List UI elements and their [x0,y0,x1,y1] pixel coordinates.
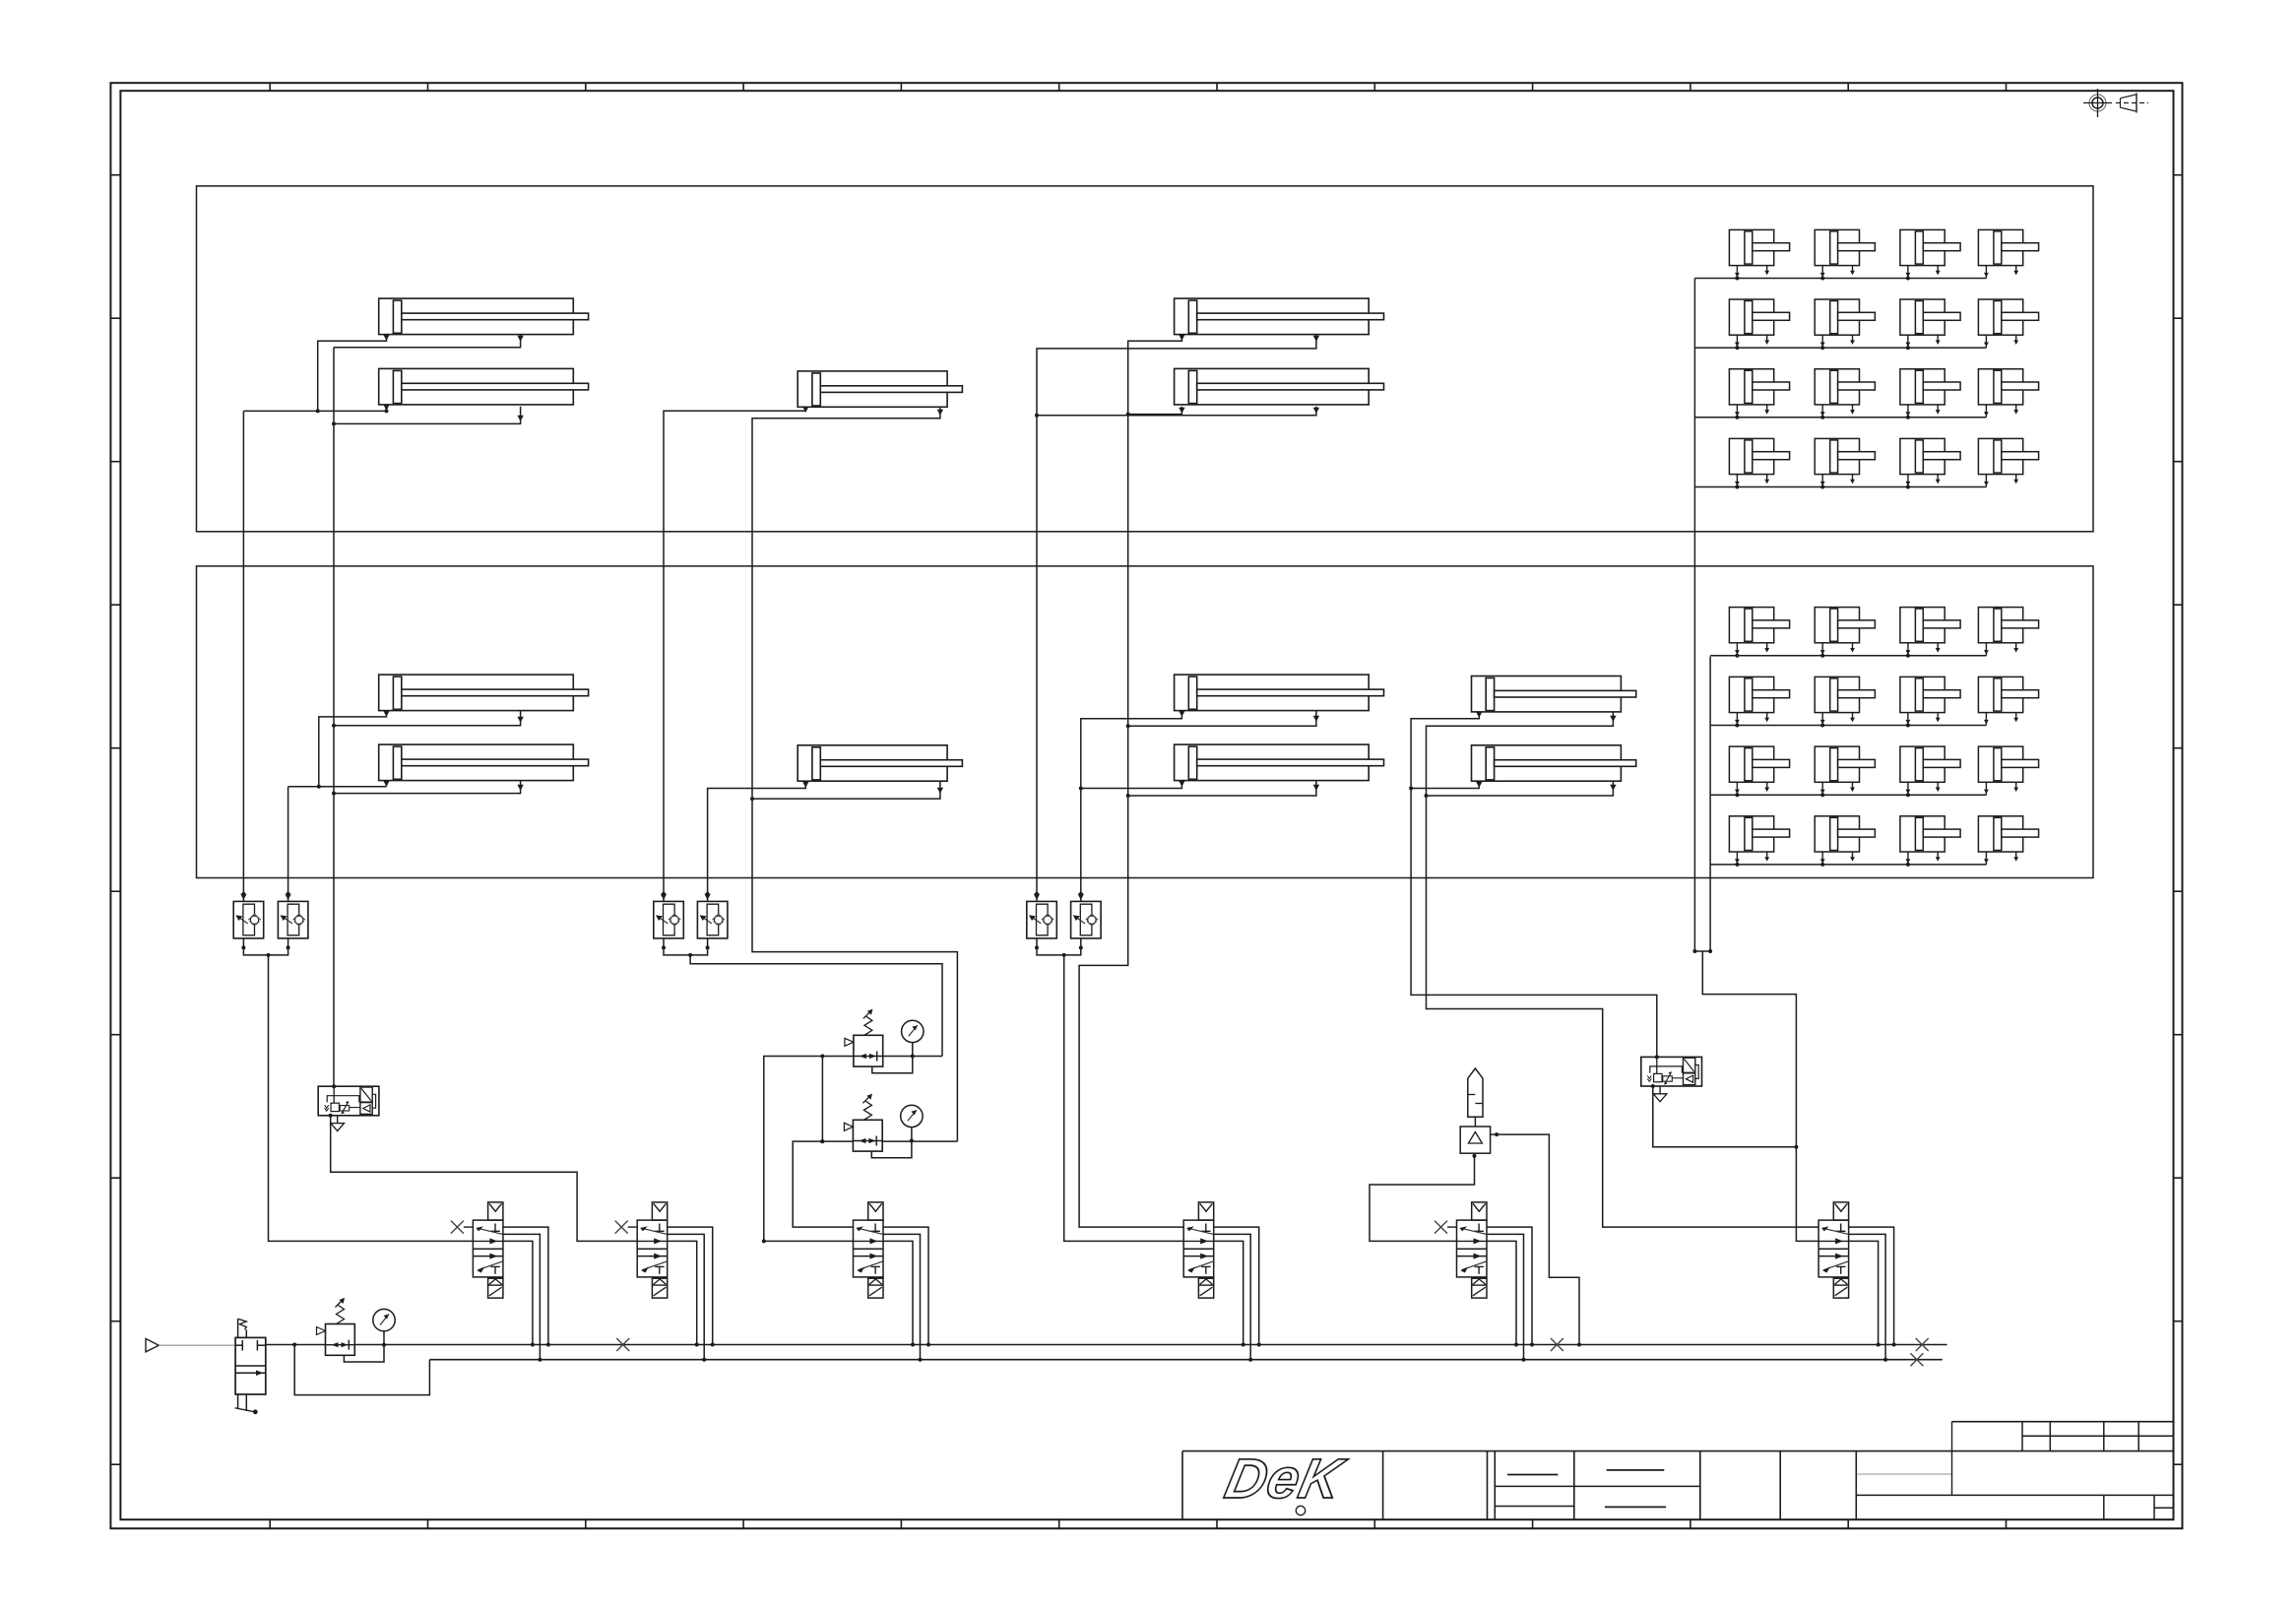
cylinder C2 upper-right pair bottom [1175,368,1384,405]
grid-lower r1c3 port stubs [1907,643,1909,656]
cone view symbol [2116,102,2148,104]
bus bypass to bus 2 [294,1345,429,1395]
title block bottom-right cells [2103,1495,2105,1519]
grid-lower r1c2 port stubs [1821,643,1823,656]
grid-lower row 4 cylinders [1729,816,1789,852]
grid-lower r1c1 port stubs [1736,643,1738,656]
S1 input stub [332,1084,336,1088]
grid-lower r3c2 port stubs [1821,782,1823,795]
grid-lower r2c1 port stubs [1736,713,1738,726]
wire A1 port2 to B-manifold trunk [334,335,521,348]
cylinder D2 group4 bottom [1472,745,1636,781]
shut-off valve spring return [237,1319,239,1337]
valve V4 5/2 solenoid [1183,1202,1214,1298]
wire D1 port2 to valve V6 trunk [1427,712,1819,1227]
grid-upper row 3 bus wire [1694,417,1986,419]
pressure regulator R2 relief line [871,1141,912,1158]
wire B2 port1 to CV2b [708,781,806,901]
valve V5 5/2 solenoid output wires to manifold [1487,1227,1532,1344]
S1 output to valve V2 [331,1116,638,1242]
border zone tick marks top/bottom [269,83,271,91]
wire A4 port1 header to CV1b [288,786,387,788]
wire C2 port1 [1128,407,1182,415]
main supply bus line 1 [384,1344,1947,1346]
grid-lower r4c4 port stubs [1985,852,1987,865]
grid-upper r3c4 port stubs [1985,405,1987,418]
wire B2 port2 trunk [752,781,940,799]
compressed air source [146,1339,159,1352]
valve V6 5/2 solenoid output wires to manifold [1849,1227,1894,1344]
trunk to check valve CV1a [242,411,244,901]
regulator R2 input from CV3 node [883,1140,958,1142]
valve V1 5/2 solenoid output wires to manifold [503,1227,548,1344]
grid-upper row 2 bus wire [1694,347,1986,349]
pressure regulator R2 gauge [901,1105,923,1127]
grid-lower r3c3 port stubs [1907,782,1909,795]
cylinder C1 upper-right pair top [1175,298,1384,335]
valve V2 5/2 solenoid blocked port X [615,1221,628,1234]
cylinder C4 lower-right pair bottom [1175,744,1384,781]
cylinder B2 lower-middle [797,745,962,781]
grid-upper r4c3 port stubs [1907,475,1909,487]
wire C2 port2 [1037,407,1316,416]
valve V3 5/2 solenoid [854,1202,884,1298]
grid-lower r2c3 port stubs [1907,713,1909,726]
grid collector junction [1694,950,1710,952]
link between regulator outlet lines [821,1057,823,1142]
cylinder D1 group4 top [1472,677,1636,712]
hand shut-off valve 3/2 [235,1337,266,1394]
grid-upper r4c1 port stubs [1736,475,1738,487]
valve V5 5/2 solenoid blocked port X [1435,1221,1447,1234]
grid-upper r3c1 port stubs [1736,405,1738,418]
grid-upper r2c1 port stubs [1736,335,1738,348]
wire A2 port2 [334,407,521,424]
grid-lower row 1 bus wire [1710,655,1986,657]
main regulator R0 body relief line [344,1345,384,1362]
R0 main line in/out [266,1344,326,1346]
soft-start unit S1 [318,1086,379,1116]
regulator R2 output to valve V3 [793,1141,853,1227]
grid-upper r3c2 port stubs [1821,405,1823,418]
grid-upper r1c1 port stubs [1736,266,1738,279]
wire A4 port2 [334,781,521,794]
wire A2 port1 stub [386,407,388,412]
DEK logo trademark circle [1296,1506,1305,1514]
F1 output to valve V5 [1370,1153,1475,1241]
filter-dryer unit F1 [1468,1068,1483,1117]
grid-upper row 4 cylinders [1729,438,1789,474]
machine boundary box lower [197,566,2094,878]
wire C1 port1 to trunk T3 [1079,335,1183,1228]
check valve CV2b [697,901,728,938]
B-manifold trunk left group [333,348,335,1086]
shut-off valve port T marks [235,1344,242,1346]
grid-upper r1c3 port stubs [1907,266,1909,279]
grid-upper r1c4 port stubs [1985,266,1987,279]
svg-text:DeK: DeK [1220,1449,1352,1511]
grid-upper row 1 bus wire [1694,278,1986,280]
source line [159,1344,235,1346]
wire C3 port1 to CV3b [1081,711,1182,902]
grid-upper r3c3 port stubs [1907,405,1909,418]
grid-lower row 2 bus wire [1710,725,1986,727]
inner border frame [120,91,2173,1519]
CV3 pair bottom join to valve V4 pilot line [1037,938,1081,955]
CV2 pair bottom join to regulator R1 input [664,938,708,955]
grid-lower r4c2 port stubs [1821,852,1823,865]
valve V6 5/2 solenoid [1818,1202,1849,1298]
pressure regulator R1 gauge [902,1020,924,1042]
title block strip [1182,1450,2174,1452]
bus blank plugs X marks [616,1338,629,1351]
grid-lower r1c4 port stubs [1985,643,1987,656]
grid-upper row 3 cylinders [1729,369,1789,405]
F1 supply riser from main bus [1491,1134,1579,1344]
main regulator R0 body [317,1298,355,1355]
shut-off valve exhaust [237,1394,239,1409]
grid-lower row 1 cylinders [1729,608,1789,643]
grid feed line to valve V6 [1702,951,1818,1241]
check valve CV1a [233,901,264,938]
grid-lower row 3 cylinders [1729,746,1789,782]
check valve CV2a [654,901,684,938]
grid-lower r4c3 port stubs [1907,852,1909,865]
wire C4 port1 [1081,781,1182,789]
grid-lower row 4 bus wire [1710,864,1986,866]
cylinder A3 lower-left pair top [379,675,589,711]
grid-lower row 3 bus wire [1710,794,1986,796]
soft-start unit S2 [1641,1057,1702,1086]
pressure regulator R1 relief line [872,1057,913,1073]
S2 output to valve V6 feed [1653,1086,1797,1147]
wire C4 port2 [1128,781,1316,796]
supply bus line 2 [429,1359,1942,1361]
grid-lower r3c1 port stubs [1736,782,1738,795]
grid-lower r4c1 port stubs [1736,852,1738,865]
grid-upper row 1 cylinders [1729,229,1789,265]
grid-lower row 2 cylinders [1729,677,1789,712]
valve V1 5/2 solenoid blocked port X [451,1221,464,1234]
check valve CV1b [278,901,308,938]
border zone tick marks left/right [110,174,120,176]
wire A3 port2 [334,711,521,726]
wire A1 port1 to trunk [318,335,387,412]
regulator R1 output to valve V3 supply [764,1057,854,1242]
valve V2 5/2 solenoid [637,1202,668,1298]
wire B1 port2 trunk to valve V4 supply [752,407,957,1141]
title block row lines [1495,1485,1700,1487]
cylinder A4 lower-left pair bottom [379,744,589,781]
grid-upper r4c4 port stubs [1985,475,1987,487]
S1 vent [337,1116,339,1124]
grid-upper row 4 bus wire [1694,486,1986,488]
grid-lower r2c4 port stubs [1985,713,1987,726]
wire D2 port1 [1411,781,1479,788]
wire D2 port2 [1427,781,1614,796]
grid-upper r2c3 port stubs [1907,335,1909,348]
CV1 pair bottom join to valve V1 [243,938,287,955]
title block part-number cell lines [1858,1473,1952,1475]
valve V2 5/2 solenoid output wires to manifold [668,1227,713,1344]
grid-upper r2c2 port stubs [1821,335,1823,348]
grid-upper r2c4 port stubs [1985,335,1987,348]
grid-lower r2c2 port stubs [1821,713,1823,726]
valve V5 5/2 solenoid [1457,1202,1488,1298]
valve V1 5/2 solenoid [473,1202,503,1298]
pressure regulator R1 [845,1009,883,1066]
cylinder A1 upper-left pair top [379,298,589,335]
grid-upper collector trunk [1693,279,1695,952]
S2 vent [1659,1086,1661,1094]
valve V3 5/2 solenoid output wires to manifold [883,1227,928,1344]
grid-upper r4c2 port stubs [1821,475,1823,487]
wire A3 port1 [319,711,387,787]
first-angle projection symbol [2092,97,2103,108]
valve V4 5/2 solenoid output wires to manifold [1214,1227,1259,1344]
grid-upper row 2 cylinders [1729,299,1789,335]
wire D1 port1 to soft-start-2 [1411,712,1657,1058]
cylinder C3 lower-right pair top [1175,675,1384,711]
pressure regulator R2 [844,1094,882,1151]
cylinder A2 upper-left pair bottom [379,368,589,405]
revision table [1952,1421,2174,1423]
main regulator R0 body gauge [373,1309,395,1330]
regulator R1 input from CV3 node [883,1056,942,1058]
check valve CV3a [1027,901,1057,938]
wire C3 port2 [1128,711,1316,727]
check valve CV3b [1071,901,1102,938]
wire B1 port1 to CV2a [664,407,805,901]
wire A group cap-side header [243,410,386,412]
wire C1 port2 to CV3a trunk [1037,335,1316,902]
grid-lower r3c4 port stubs [1985,782,1987,795]
grid-upper r1c2 port stubs [1821,266,1823,279]
machine boundary box upper [197,186,2094,532]
grid-lower collector trunk [1709,657,1711,951]
DEK logo [1220,1449,1352,1511]
cylinder B1 upper-middle [797,371,962,407]
